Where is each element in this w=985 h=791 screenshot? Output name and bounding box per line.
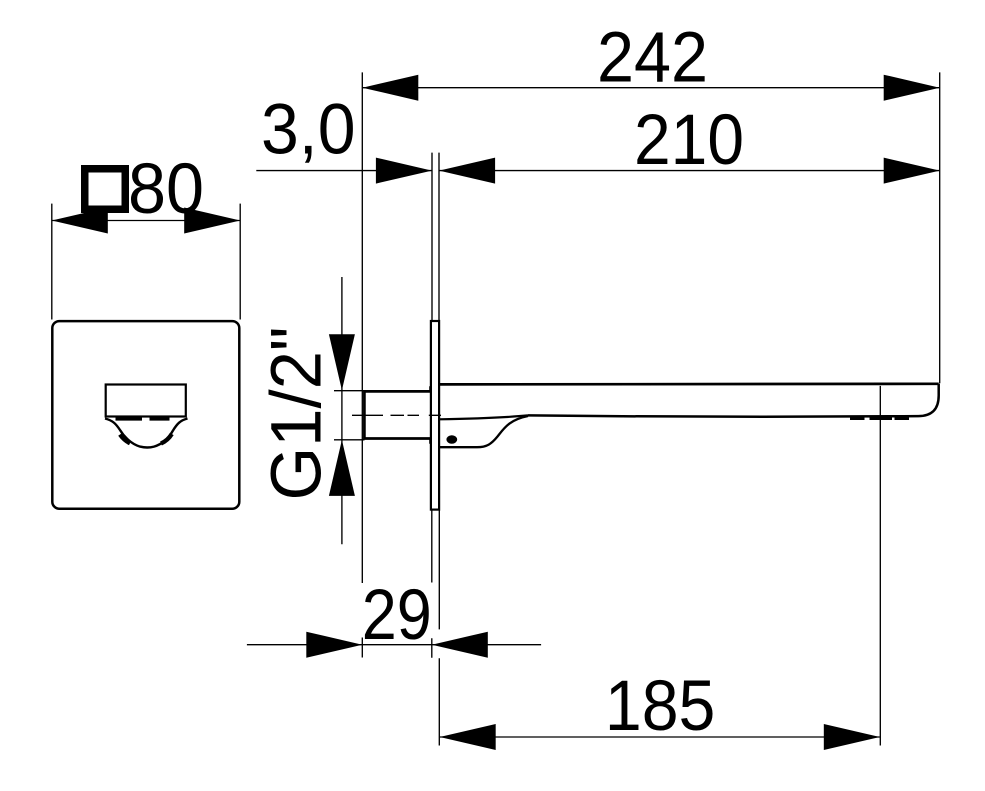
extension line wall plate left face lower: [431, 510, 433, 657]
arrow 29 right: [432, 632, 488, 658]
dimension line 242: [362, 87, 939, 89]
hidden outlet dashes side view: [850, 417, 909, 420]
dimension line 3,0 leader: [256, 170, 432, 172]
pipe flange step at plate: [429, 386, 431, 444]
arrow 185 left: [440, 724, 496, 750]
extension line right end of spout (x=940): [939, 72, 941, 383]
bowl tick left: [120, 435, 130, 444]
hidden outlet slot dashes front view: [116, 417, 170, 420]
set screw dot: [446, 435, 457, 444]
spout outlet rectangle front view: [106, 385, 186, 417]
arrow 3,0 left: [376, 158, 432, 184]
extension tick pipe bottom (G1/2): [334, 439, 365, 441]
arrow 80 right: [184, 208, 240, 234]
extension line square plate right: [239, 204, 241, 320]
svg-text:210: 210: [634, 101, 744, 180]
spout underside near wall: [439, 415, 528, 419]
arrow G1/2 top: [329, 334, 355, 390]
svg-text:3,0: 3,0: [261, 90, 356, 169]
spout right end and underside: [528, 384, 939, 417]
thread pipe side view: [364, 391, 431, 438]
square symbol of label 80: [85, 169, 126, 210]
foot serif of digit 1 in 185: [611, 725, 635, 730]
extension line outlet (x=880): [879, 386, 881, 746]
spout top edge: [439, 382, 939, 385]
arrow 242 right: [884, 75, 940, 101]
arrow 210 left: [439, 158, 495, 184]
svg-text:G1/2": G1/2": [258, 327, 337, 501]
svg-text:29: 29: [362, 576, 432, 655]
arrow 185 right: [824, 724, 880, 750]
svg-text:242: 242: [597, 19, 708, 98]
foot serif of digit 1 in 210: [679, 159, 701, 164]
dimension line 185: [440, 736, 880, 738]
arrow 29 left: [306, 632, 362, 658]
extension line square plate left: [51, 204, 53, 320]
square escutcheon plate front view: [52, 321, 239, 509]
extension line left of thread pipe (x=362): [361, 72, 363, 657]
wall plate side view: [431, 321, 439, 510]
arrow G1/2 bottom: [329, 440, 355, 496]
outlet bowl curve front view: [105, 419, 188, 448]
svg-text:185: 185: [605, 667, 716, 746]
bowl tick right: [161, 434, 172, 444]
arrow 210 right: [884, 158, 940, 184]
dimension line G1/2 vertical: [341, 277, 343, 544]
dimension line 29: [247, 644, 541, 646]
extension line wall plate right face lower: [438, 510, 440, 745]
foot serif of digit 1 in G1/2: [316, 415, 321, 437]
centerline dash-dot: [352, 414, 441, 416]
extension line wall plate left face upper: [431, 153, 433, 321]
extension line wall plate right face upper: [438, 153, 440, 321]
arrow 80 left: [52, 208, 108, 234]
dimension line square 80: [52, 220, 240, 222]
extension tick pipe top (G1/2): [334, 390, 365, 392]
arrow 242 left: [362, 75, 418, 101]
mounting bracket outline: [439, 416, 528, 447]
dimension line 210: [439, 170, 940, 172]
